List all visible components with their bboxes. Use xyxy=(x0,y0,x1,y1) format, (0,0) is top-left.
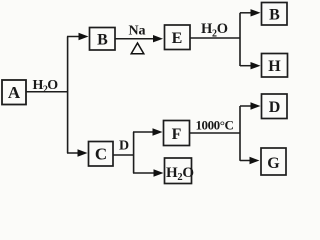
wire E to trunk2 xyxy=(190,37,240,39)
wire trunk2 vertical xyxy=(239,13,241,66)
wire trunk4 vertical xyxy=(239,106,241,161)
svg-text:E: E xyxy=(172,30,183,47)
svg-text:1000°C: 1000°C xyxy=(196,118,234,133)
box E xyxy=(165,25,191,50)
box D xyxy=(262,94,288,119)
wire trunk3 to H2O-box arrow xyxy=(133,172,155,174)
wire trunk1 vertical xyxy=(67,37,69,154)
box B2 xyxy=(262,3,288,26)
wire trunk2 to H arrow xyxy=(240,65,252,67)
box H2O xyxy=(165,158,194,184)
box A xyxy=(2,80,26,105)
box G xyxy=(261,148,286,175)
wire B1 to E arrow xyxy=(115,38,155,40)
box F xyxy=(164,121,190,146)
svg-text:D: D xyxy=(269,99,281,116)
heating triangle xyxy=(131,43,144,54)
svg-text:A: A xyxy=(8,83,21,102)
wire F to trunk4 xyxy=(190,132,240,134)
wire trunk1 to B arrow xyxy=(67,36,80,38)
label H2O (near A) xyxy=(33,78,59,95)
box C xyxy=(89,142,114,167)
wire trunk3 vertical xyxy=(133,132,135,173)
wire trunk4 to G arrow xyxy=(240,160,251,162)
wire trunk1 to C arrow xyxy=(67,152,78,154)
paper background xyxy=(0,0,289,185)
svg-text:B: B xyxy=(269,7,280,24)
svg-text:G: G xyxy=(267,155,280,172)
svg-text:Na: Na xyxy=(128,24,145,39)
wire C to trunk3 xyxy=(113,154,134,156)
wire trunk4 to D arrow xyxy=(240,105,252,107)
wire A to trunk1 xyxy=(26,91,68,93)
wire trunk2 to B2 arrow xyxy=(240,12,252,14)
svg-text:D: D xyxy=(119,139,129,154)
box H xyxy=(262,54,288,78)
svg-text:H: H xyxy=(268,58,281,75)
svg-text:B: B xyxy=(97,32,108,49)
wire trunk3 to F arrow xyxy=(133,131,154,133)
svg-text:F: F xyxy=(172,126,182,143)
svg-text:C: C xyxy=(95,145,107,164)
box B1 xyxy=(90,28,116,51)
